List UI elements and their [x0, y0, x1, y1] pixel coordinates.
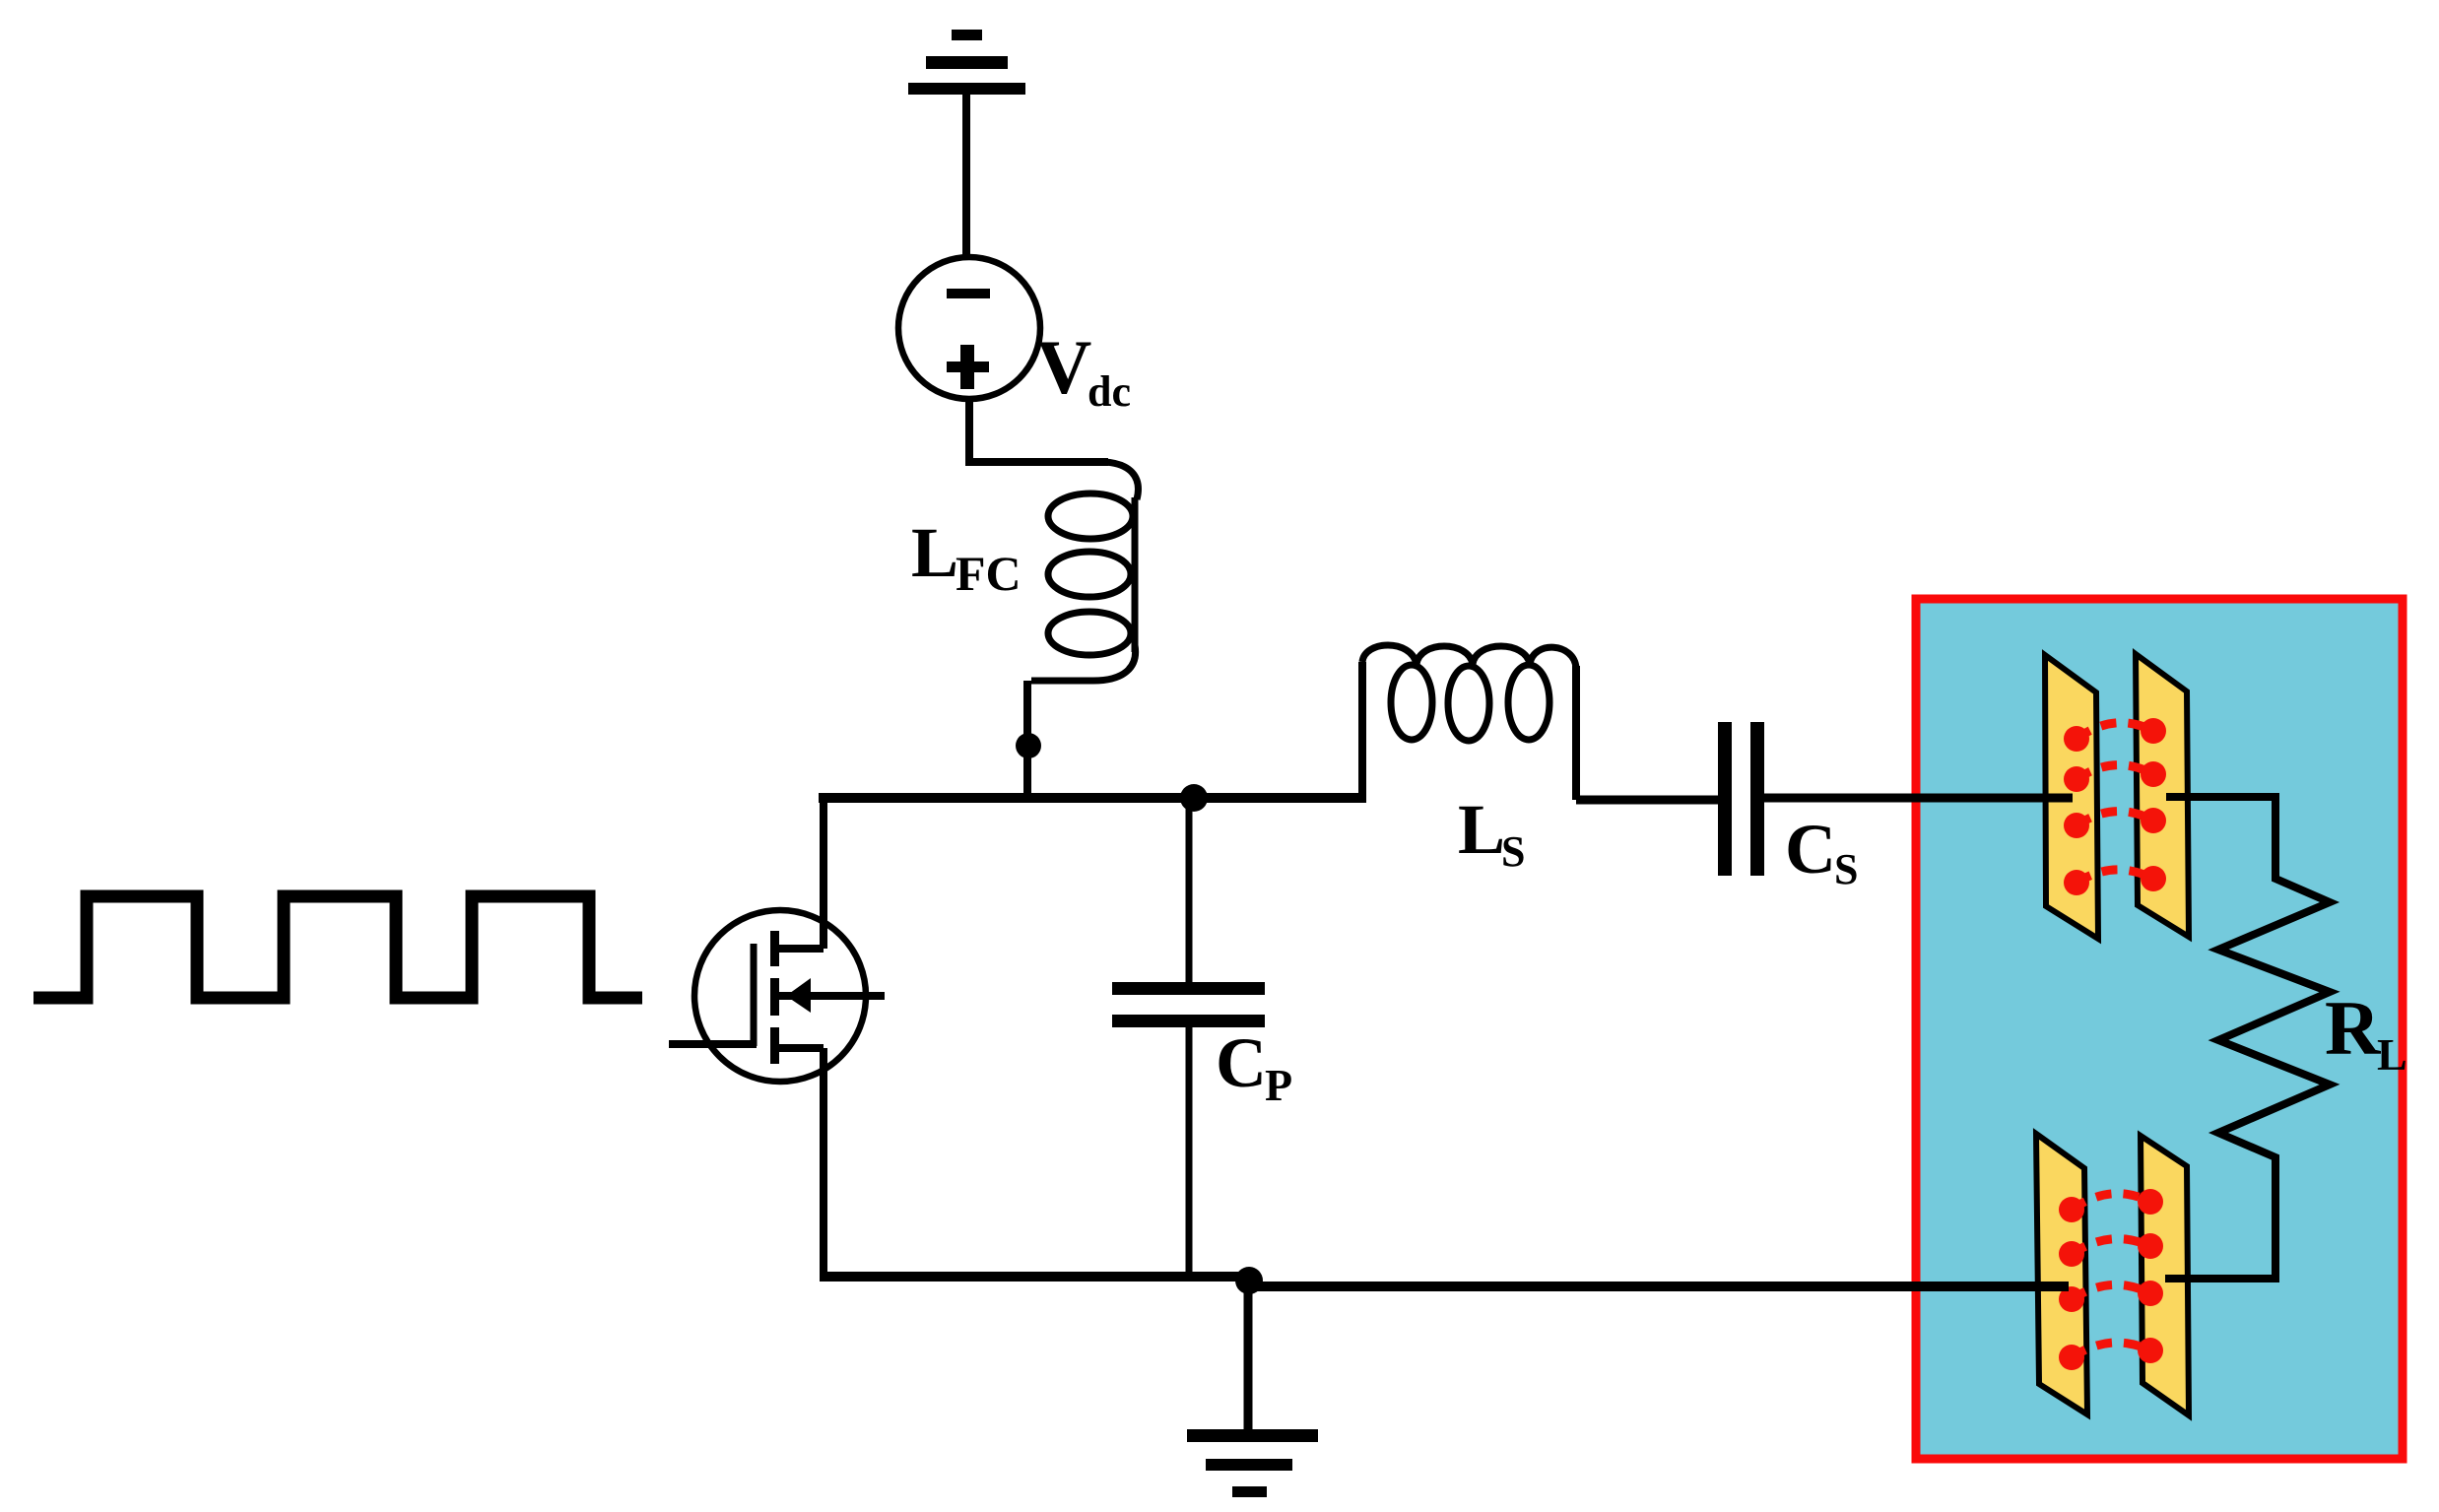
svg-text:L: L: [1458, 790, 1505, 869]
svg-text:R: R: [2325, 985, 2382, 1071]
svg-text:P: P: [1265, 1060, 1292, 1110]
svg-text:S: S: [1501, 827, 1525, 876]
svg-text:V: V: [1036, 324, 1091, 410]
svg-text:dc: dc: [1088, 367, 1131, 416]
svg-text:C: C: [1216, 1023, 1267, 1102]
svg-text:L: L: [2377, 1029, 2407, 1080]
svg-text:FC: FC: [956, 546, 1022, 601]
svg-text:S: S: [1834, 845, 1858, 893]
svg-text:C: C: [1785, 810, 1836, 888]
svg-text:L: L: [911, 513, 958, 592]
